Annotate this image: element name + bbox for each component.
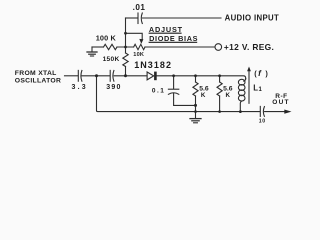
svg-text:1N3182: 1N3182 <box>134 60 172 70</box>
svg-text:AUDIO INPUT: AUDIO INPUT <box>225 14 280 23</box>
svg-text:150K: 150K <box>103 56 120 63</box>
svg-text:OUT: OUT <box>272 99 289 106</box>
svg-text:.01: .01 <box>133 3 146 12</box>
svg-text:ADJUST: ADJUST <box>149 25 183 34</box>
svg-text:+12 V. REG.: +12 V. REG. <box>224 42 274 52</box>
svg-text:): ) <box>265 69 268 78</box>
svg-text:FROM XTAL: FROM XTAL <box>15 70 57 77</box>
svg-text:3.3: 3.3 <box>72 84 88 91</box>
svg-text:K: K <box>226 92 231 99</box>
svg-text:(: ( <box>254 69 257 78</box>
svg-text:10K: 10K <box>133 52 144 58</box>
svg-text:K: K <box>201 92 206 99</box>
svg-text:DIODE BIAS: DIODE BIAS <box>149 34 198 43</box>
svg-text:10: 10 <box>259 118 266 124</box>
svg-text:390: 390 <box>106 84 121 91</box>
svg-text:0.1: 0.1 <box>152 88 166 95</box>
svg-text:100 K: 100 K <box>96 33 117 42</box>
svg-text:OSCILLATOR: OSCILLATOR <box>15 78 61 85</box>
